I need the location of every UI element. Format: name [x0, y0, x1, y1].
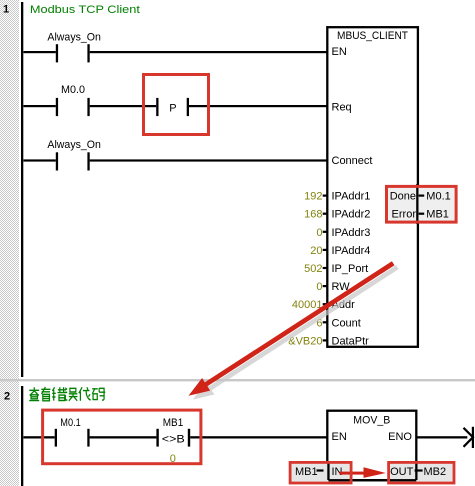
block2 bottom edge overlay: [328, 479, 416, 481]
svg-text:502: 502: [304, 263, 322, 275]
annotation box around M0.1 and MB1 contacts: [43, 410, 201, 464]
pin IPAddr3: [323, 227, 371, 239]
查: [29, 387, 39, 400]
annotation grey fill MB1-IN: [290, 462, 351, 483]
svg-text:0: 0: [316, 281, 322, 293]
误: [65, 388, 78, 401]
wire rung2 left: [24, 105, 56, 107]
wire rung3 left: [24, 159, 56, 161]
wire net2 to block: [190, 436, 327, 438]
svg-text:OUT: OUT: [390, 466, 414, 478]
pin DataPtr: [323, 335, 369, 347]
svg-text:Req: Req: [332, 102, 352, 114]
block2 right edge overlay: [415, 461, 417, 480]
svg-text:MBUS_CLIENT: MBUS_CLIENT: [337, 30, 408, 42]
svg-text:IPAddr4: IPAddr4: [332, 245, 371, 257]
pin IP_Port: [323, 263, 368, 275]
svg-text:M0.1: M0.1: [60, 417, 81, 429]
代: [79, 387, 91, 401]
annotation box around P contact: [144, 75, 209, 135]
svg-text:Done: Done: [390, 191, 416, 203]
wire rung2 middle: [90, 105, 157, 107]
svg-text:DataPtr: DataPtr: [332, 335, 370, 347]
wire rung3 to block: [90, 159, 327, 161]
svg-text:20: 20: [310, 245, 322, 257]
svg-text:IPAddr3: IPAddr3: [332, 227, 371, 239]
svg-text:192: 192: [304, 191, 322, 203]
tick OUT to MB2: [415, 469, 423, 471]
left power rail network 1: [21, 2, 23, 377]
contact M0.0 (rung 2): [56, 84, 90, 116]
svg-text:MOV_B: MOV_B: [353, 414, 390, 426]
pin IPAddr4: [323, 245, 371, 257]
block2 left edge overlay: [327, 461, 329, 480]
wire net2 middle: [90, 436, 157, 438]
svg-text:0: 0: [316, 227, 322, 239]
svg-text:EN: EN: [332, 46, 347, 58]
svg-text:MB1: MB1: [426, 209, 449, 221]
pin IPAddr2: [323, 209, 371, 221]
svg-text:EN: EN: [332, 431, 347, 443]
pin Count: [323, 317, 361, 329]
pin RW: [323, 281, 351, 293]
svg-text:Count: Count: [332, 317, 361, 329]
svg-text:MB1: MB1: [163, 417, 184, 429]
annotation big red arrow: [189, 261, 395, 396]
open wire continuation arrow: [464, 427, 474, 448]
pin Error: [392, 209, 425, 221]
network separator line: [0, 379, 475, 381]
svg-text:Modbus TCP Client: Modbus TCP Client: [30, 4, 140, 16]
svg-text:Always_On: Always_On: [47, 32, 101, 44]
svg-text:Always_On: Always_On: [47, 139, 101, 151]
svg-text:<>B: <>B: [162, 434, 185, 446]
错: [52, 387, 66, 400]
svg-text:IPAddr2: IPAddr2: [332, 209, 371, 221]
svg-text:IP_Port: IP_Port: [332, 263, 369, 275]
wire net2 rung left: [24, 436, 55, 438]
wire rung1 left: [24, 51, 56, 53]
看: [41, 387, 50, 401]
gutter margin column: [0, 0, 19, 486]
码: [92, 388, 105, 400]
comparison contact MB1 <>B 0: [156, 417, 190, 465]
wire rung1 to block: [90, 51, 327, 53]
annotation box around OUT-MB2: [389, 462, 454, 483]
tick MB1 to IN: [317, 469, 324, 471]
left power rail network 2: [21, 386, 23, 486]
pin Done: [390, 191, 424, 203]
svg-text:MB1: MB1: [295, 466, 318, 478]
svg-text:M0.1: M0.1: [426, 191, 450, 203]
svg-text:1: 1: [3, 4, 9, 16]
svg-text:168: 168: [304, 209, 322, 221]
svg-text:2: 2: [4, 390, 10, 402]
contact Always_On (rung 1): [47, 32, 101, 63]
function block MOV_B U2: [327, 411, 416, 481]
annotation box stroke Done/Error: [387, 186, 457, 222]
block right edge overlay (kept above grey fill): [416, 184, 418, 224]
svg-text:MB2: MB2: [424, 466, 447, 478]
pin Addr: [323, 299, 355, 311]
contact P positive edge (rung 2): [156, 98, 189, 116]
annotation box around Done/Error outputs: [387, 186, 457, 222]
svg-text:Connect: Connect: [332, 155, 373, 167]
svg-text:IPAddr1: IPAddr1: [332, 191, 371, 203]
pin IPAddr1: [323, 191, 371, 203]
network title (Chinese) 查看错误代码: [29, 387, 105, 401]
contact Always_On (rung 3): [47, 139, 101, 171]
function block MBUS_CLIENT U1: [327, 27, 418, 347]
svg-text:ENO: ENO: [388, 431, 412, 443]
annotation small arrow IN to OUT: [340, 467, 386, 478]
contact M0.1 (network 2): [55, 417, 90, 447]
annotation box around MB1-IN: [290, 462, 351, 483]
wire rung2 to block: [189, 105, 327, 107]
wire from ENO: [416, 436, 467, 438]
annotation big red arrow shadow: [193, 265, 399, 400]
svg-text:Error: Error: [392, 209, 417, 221]
annotation grey fill OUT-MB2: [389, 462, 454, 483]
svg-text:P: P: [169, 102, 176, 114]
svg-text:M0.0: M0.0: [61, 84, 85, 96]
